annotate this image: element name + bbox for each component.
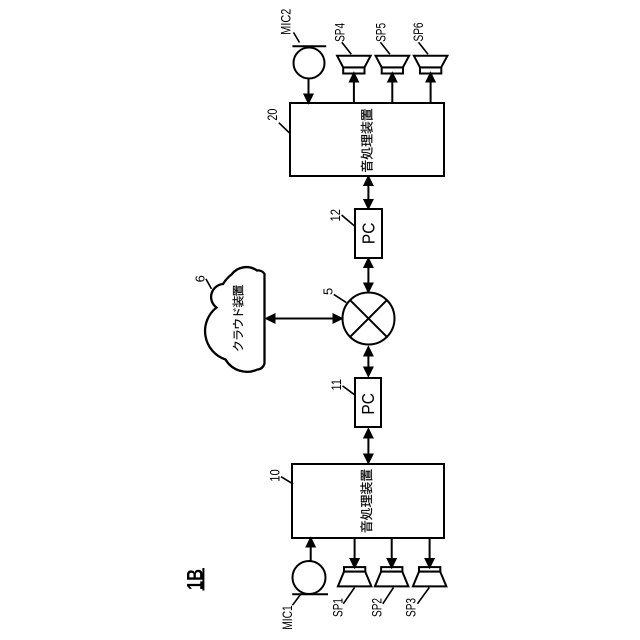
double arrow PC11 - node5	[365, 348, 373, 376]
svg-text:SP4: SP4	[331, 23, 347, 42]
double arrow cloud6 - node5	[267, 315, 342, 323]
double arrow PC12 - box20	[365, 177, 373, 208]
svg-text:MIC1: MIC1	[279, 605, 295, 630]
double arrow node5 - PC12	[365, 259, 373, 292]
svg-text:MIC2: MIC2	[278, 9, 294, 35]
speaker SP1	[338, 567, 372, 586]
svg-text:20: 20	[264, 108, 280, 120]
speaker SP4	[337, 56, 371, 74]
speaker SP5	[376, 56, 410, 74]
svg-text:PC: PC	[358, 393, 378, 415]
leader tick SP5	[380, 42, 390, 54]
arrow MIC2 to box20	[305, 79, 313, 103]
box PC 12	[355, 209, 382, 258]
svg-text:10: 10	[267, 469, 283, 482]
leader tick 11	[343, 386, 355, 395]
leader tick 5	[334, 294, 347, 302]
svg-text:SP1: SP1	[330, 598, 346, 617]
microphone MIC2	[292, 46, 326, 78]
arrow box20 to SP6	[427, 74, 435, 103]
leader tick SP2	[383, 588, 394, 604]
arrow box20 to SP5	[388, 74, 396, 103]
svg-text:12: 12	[327, 209, 343, 222]
arrow box10 to SP2	[388, 538, 396, 567]
leader tick 10	[281, 477, 293, 484]
double arrow box10 - PC11	[365, 430, 373, 463]
underline of 1B	[202, 568, 204, 591]
arrow box10 to SP1	[351, 538, 359, 567]
leader tick SP1	[343, 588, 354, 604]
box 10 sound-processing device	[292, 464, 444, 538]
box PC 11	[355, 378, 381, 427]
svg-text:PC: PC	[358, 223, 378, 245]
arrow box10 to SP3	[426, 538, 434, 567]
speaker SP3	[413, 567, 447, 586]
leader tick MIC2	[294, 32, 300, 42]
svg-text:SP5: SP5	[372, 23, 388, 42]
leader tick 6	[206, 279, 212, 289]
leader tick 12	[342, 215, 355, 226]
svg-text:11: 11	[328, 379, 344, 391]
microphone MIC1	[292, 561, 328, 594]
label クラウド装置 in cloud	[232, 285, 243, 351]
cloud 6	[205, 267, 264, 372]
label 音処理装置 in box 10	[360, 469, 372, 532]
leader tick 20	[279, 123, 291, 134]
svg-text:SP6: SP6	[410, 22, 426, 41]
speaker SP6	[414, 56, 448, 74]
svg-text:SP3: SP3	[402, 598, 418, 617]
svg-text:SP2: SP2	[368, 598, 384, 617]
arrow MIC1 to box10	[307, 539, 315, 562]
label 音処理装置 in box 20	[361, 109, 373, 172]
leader tick SP4	[342, 42, 352, 54]
leader tick SP6	[419, 42, 429, 54]
svg-text:5: 5	[321, 288, 336, 295]
speaker SP2	[375, 567, 409, 586]
arrow box20 to SP4	[350, 74, 358, 103]
leader tick SP3	[417, 588, 429, 604]
box 20 sound-processing device	[290, 103, 444, 176]
network node 5 (circle with X)	[343, 293, 395, 345]
svg-text:6: 6	[192, 275, 207, 282]
leader tick MIC1	[293, 595, 301, 606]
